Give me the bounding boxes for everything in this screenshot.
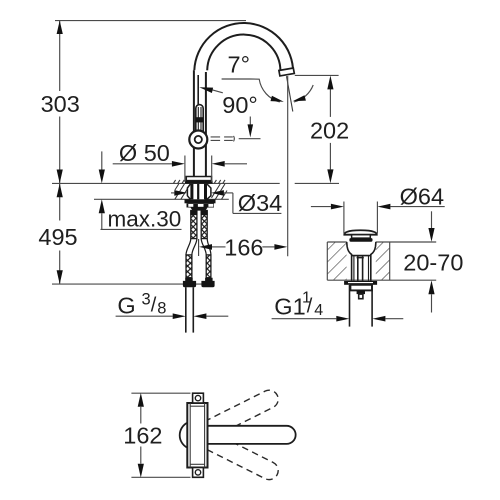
mounting hex nut: [187, 184, 190, 199]
top reference line: [55, 20, 246, 22]
base plate: [185, 181, 213, 184]
top view: mounting tab top: [193, 393, 204, 403]
svg-text:90°: 90°: [222, 92, 258, 118]
svg-text:/: /: [151, 295, 157, 317]
label G 3/8: [116, 291, 229, 320]
surface hatch ticks left: [173, 180, 184, 184]
drain dome cap: [344, 230, 377, 234]
lever open position dashed: [211, 137, 233, 141]
dimension 303/495 vertical line: [59, 21, 61, 285]
svg-text:495: 495: [38, 224, 77, 250]
hose s-curves: [186, 239, 211, 255]
hose end connector left: [183, 278, 196, 288]
bottom reference line: [52, 283, 214, 285]
dimension Ø34: [171, 190, 282, 216]
flexible hose lower left: [186, 255, 192, 278]
faucet body: [194, 70, 206, 177]
drain flange: [344, 281, 377, 285]
svg-text:4: 4: [314, 302, 323, 319]
ribbed flange: [187, 203, 215, 207]
svg-text:max.30: max.30: [108, 207, 182, 232]
top view: swivel range dashed arm lower: [205, 432, 282, 482]
spout tip face: [279, 68, 294, 76]
center line between hoses: [198, 239, 200, 256]
svg-text:8: 8: [157, 300, 166, 318]
arrow up at top line: [57, 21, 63, 34]
svg-text:/: /: [307, 296, 313, 318]
hose collet taper: [191, 208, 208, 211]
counter section hatch left: [175, 184, 188, 199]
svg-text:Ø 50: Ø 50: [119, 140, 170, 166]
svg-text:20-70: 20-70: [403, 249, 463, 275]
drain cap neck: [352, 235, 371, 238]
svg-text:Ø64: Ø64: [400, 183, 444, 209]
svg-text:Ø34: Ø34: [238, 190, 282, 216]
top view: spout bar: [208, 426, 296, 444]
swivel arc left arrowhead: [271, 96, 284, 102]
drain counter section: [327, 242, 436, 280]
dimension Ø50: [113, 140, 247, 182]
lever pivot: [189, 131, 207, 149]
arrow down at bottom reference: [57, 270, 63, 284]
svg-text:202: 202: [310, 117, 349, 143]
flexible hose upper right: [201, 211, 208, 239]
flexible hose upper left: [190, 211, 197, 239]
svg-text:G: G: [117, 292, 135, 318]
double arrow at countertop: [57, 170, 63, 184]
label G1 1/4: [272, 290, 404, 322]
base collar: [186, 177, 211, 181]
svg-text:162: 162: [123, 423, 162, 449]
supply pipe below left connector: [185, 287, 187, 332]
washer bar: [185, 199, 216, 203]
top view: mounting tab bottom: [193, 468, 204, 478]
swivel arc right arrowhead: [293, 95, 306, 101]
dimension Ø64: [311, 183, 445, 233]
90 deg leader arrow down: [249, 117, 251, 125]
drain inner funnel line: [352, 255, 371, 257]
dimension 166: [199, 234, 287, 260]
counter bottom line: [94, 198, 190, 200]
dimension 202: [295, 75, 349, 183]
drain rod: [357, 256, 359, 281]
lever handle: [196, 105, 203, 132]
leader arrow to neck: [212, 90, 223, 93]
svg-text:303: 303: [41, 91, 80, 117]
svg-text:3: 3: [142, 291, 151, 309]
top view: handle bulge: [180, 423, 188, 448]
top view: dimension 162: [123, 393, 190, 478]
drain stem nub: [359, 294, 363, 299]
spout tip axis line 7deg: [287, 76, 293, 111]
7 deg underline and swivel arc left: [222, 79, 280, 102]
dimension 20-70: [403, 211, 463, 312]
flexible hose lower right: [206, 255, 211, 278]
svg-text:166: 166: [224, 234, 263, 260]
top view: swivel range dashed arm upper: [205, 387, 282, 437]
drain inner wall lines: [353, 256, 355, 281]
drain gasket: [349, 238, 372, 242]
max.30 dimension: [99, 151, 182, 231]
surface hatch ticks right: [214, 180, 225, 184]
counter section hatch right: [212, 184, 228, 199]
drain step block: [350, 285, 372, 291]
spout outer arc: [194, 23, 293, 73]
top view: faucet body rect: [187, 403, 207, 468]
hose end connector right: [201, 278, 214, 288]
drain tail pipe: [349, 285, 351, 327]
neck inner line: [197, 75, 199, 105]
svg-text:G1: G1: [274, 294, 305, 320]
swivel arc right: [294, 85, 313, 102]
drain small block: [357, 290, 365, 294]
countertop line: [52, 182, 280, 184]
extension line from spout tip: [287, 76, 289, 256]
drain body shoulders: [347, 242, 352, 281]
svg-text:7°: 7°: [228, 52, 250, 78]
spout inner arc: [207, 35, 280, 72]
